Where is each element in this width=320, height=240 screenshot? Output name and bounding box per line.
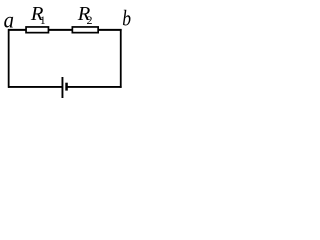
wire: right side: [120, 29, 122, 88]
wire: top side a to b: [8, 29, 122, 31]
svg-text:1: 1: [40, 13, 46, 27]
svg-text:b: b: [122, 7, 131, 32]
wire: bottom left segment to battery: [8, 86, 62, 88]
battery cell: long plate: [61, 77, 63, 98]
resistor R1 body: [26, 27, 48, 33]
svg-text:a: a: [4, 7, 14, 32]
svg-text:2: 2: [87, 13, 93, 27]
resistor R2 body: [72, 27, 98, 33]
wire: bottom right segment from battery: [67, 86, 122, 88]
battery cell: short plate: [65, 83, 68, 91]
wire: left side: [8, 29, 10, 88]
